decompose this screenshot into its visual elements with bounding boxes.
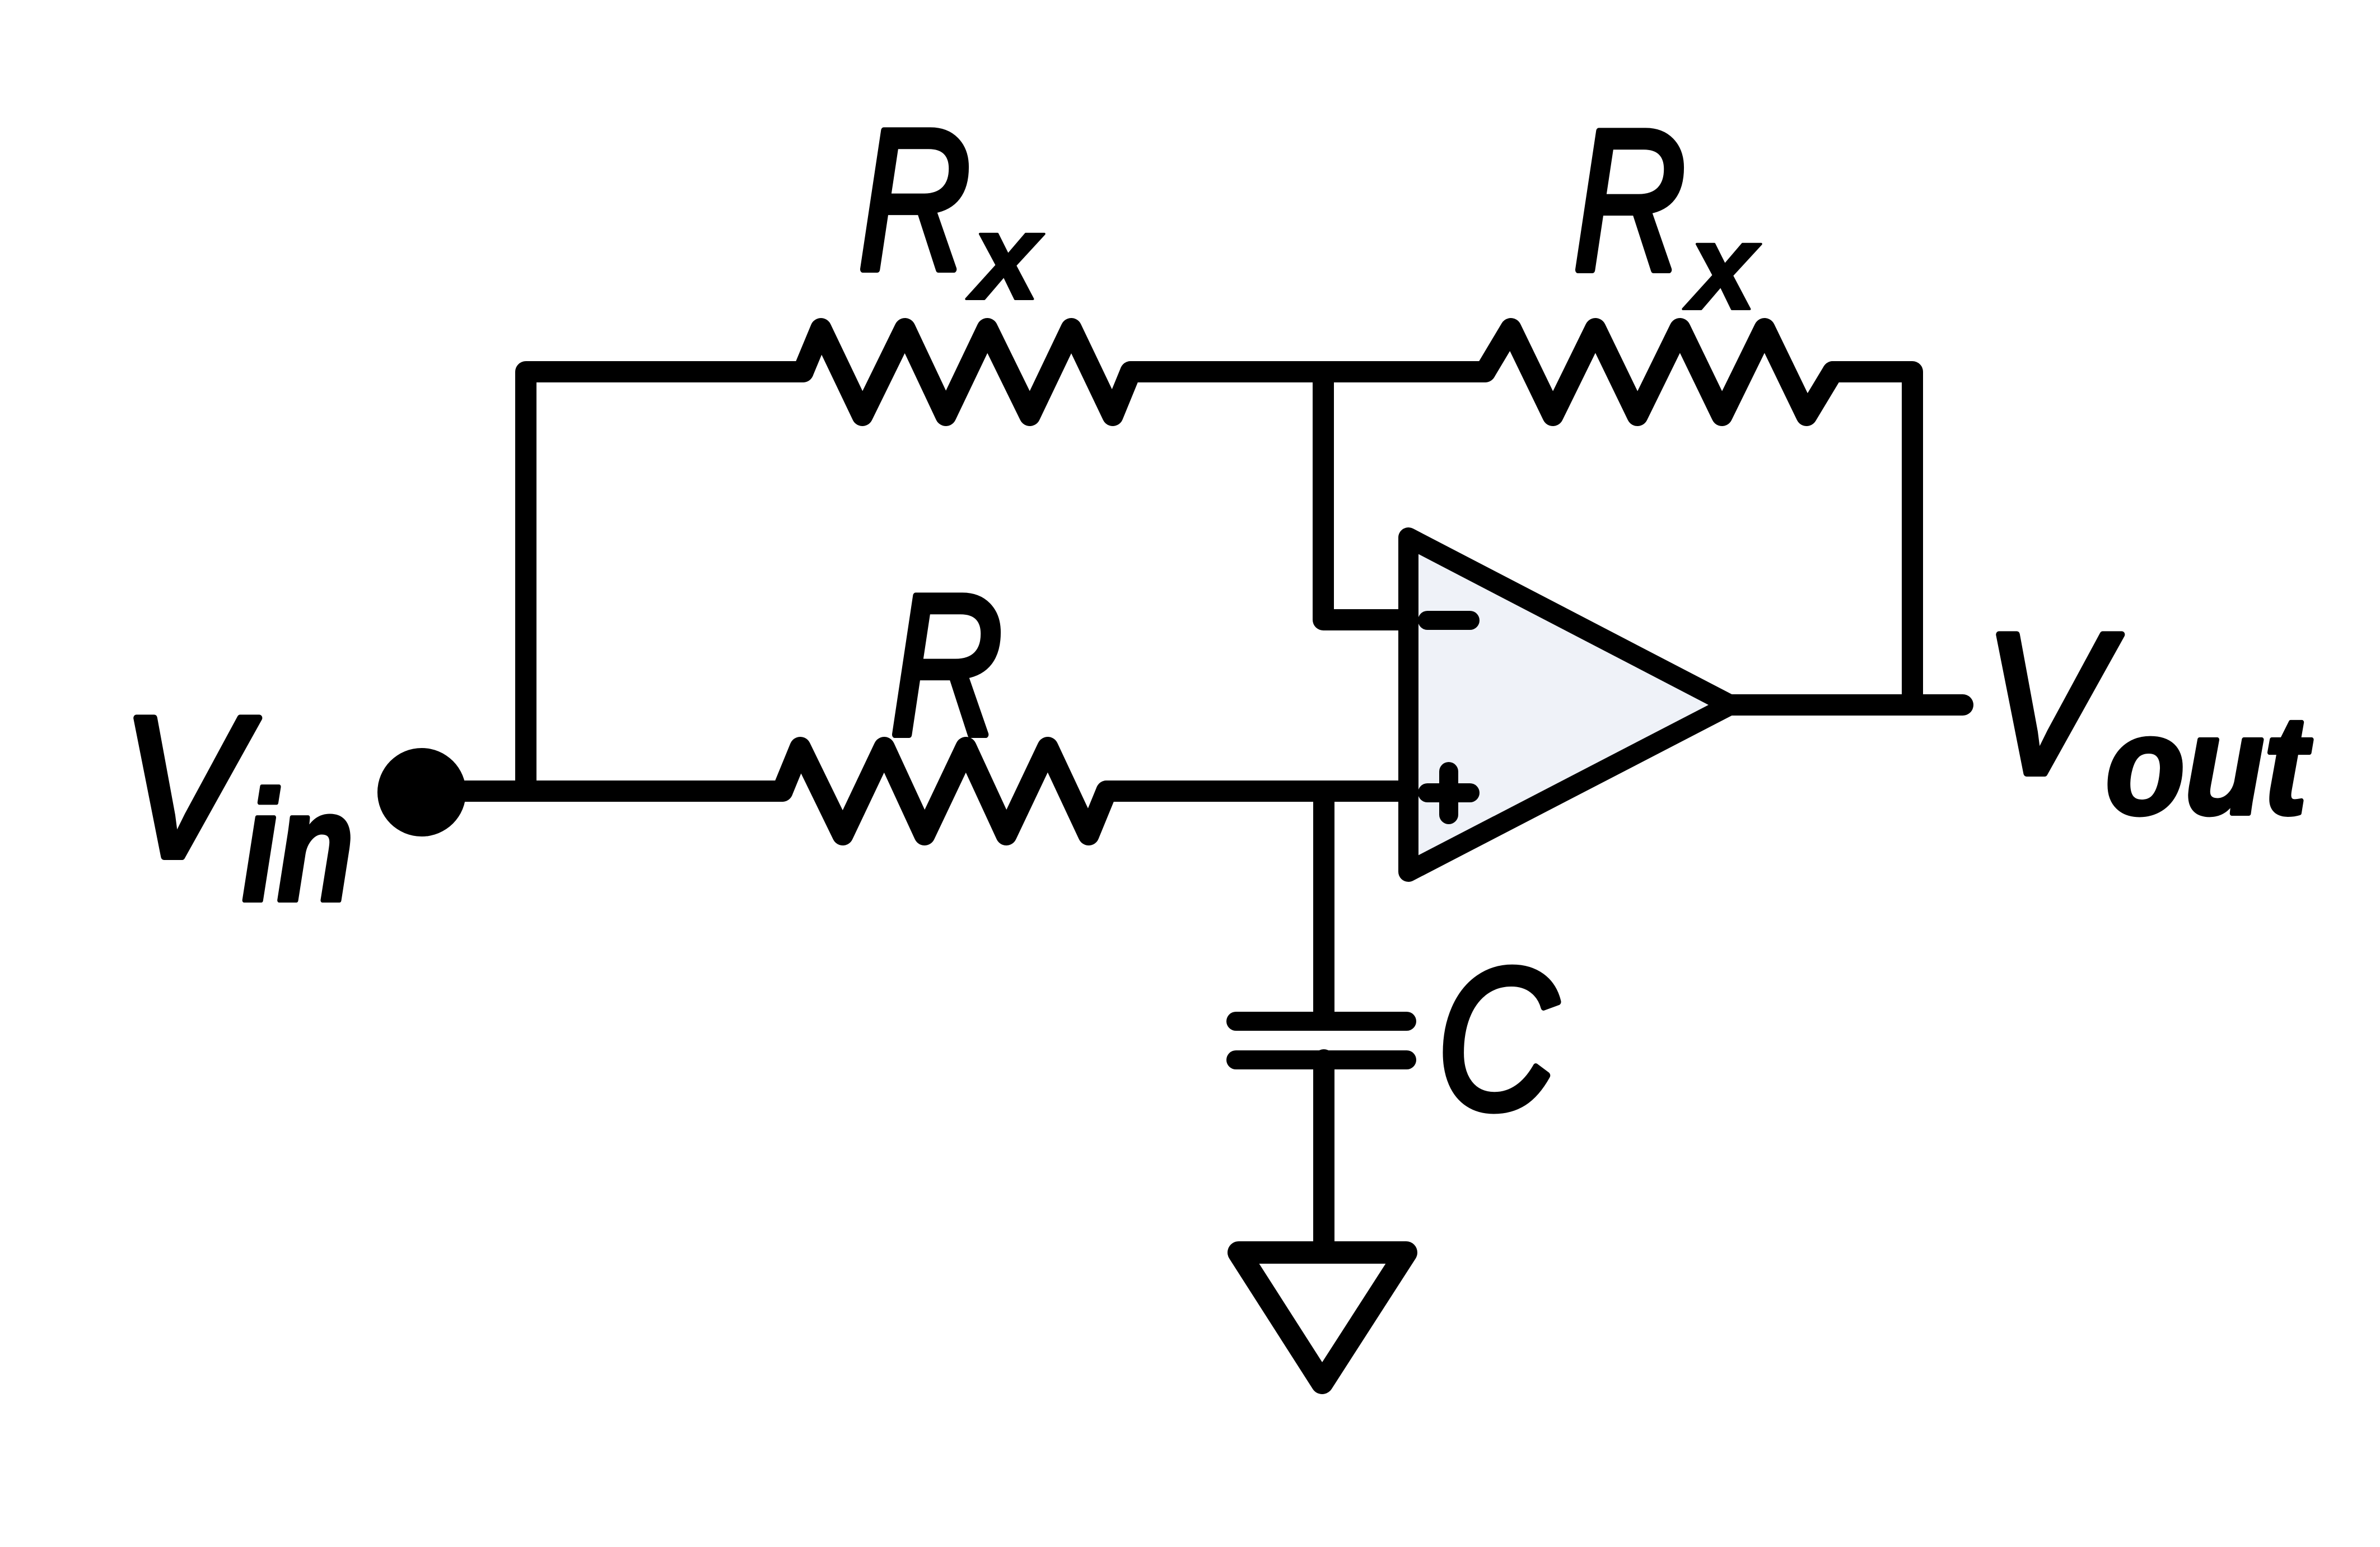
svg-text:out: out: [2106, 687, 2312, 843]
resistor Rx1 (top left, label Rx): [803, 329, 1131, 415]
wire : Rx2 right lead down to the output net: [1833, 372, 1912, 705]
svg-text:R: R: [1573, 88, 1686, 313]
op-amp U1 inverting input minus sign: [1427, 611, 1470, 630]
svg-text:C: C: [1436, 927, 1560, 1152]
op-amp U1: [1408, 538, 1730, 872]
svg-text:x: x: [1683, 198, 1761, 335]
resistor R: [782, 747, 1107, 835]
resistor Rx2 (top right, label Rx): [1485, 329, 1833, 415]
wire : top branch between Rx1 and Rx2, junction at node A: [1131, 361, 1485, 382]
svg-text:V: V: [1983, 591, 2123, 816]
svg-text:R: R: [858, 87, 971, 312]
svg-text:R: R: [890, 553, 1003, 778]
ground: [1239, 1252, 1406, 1383]
wire : Vin node up and right to resistor Rx1 left lead: [526, 372, 803, 791]
node Vin junction dot: [377, 748, 466, 836]
wire : node A down to op-amp inverting input: [1323, 372, 1409, 620]
wire : resistor R to op-amp noninverting input, junction at node B: [1107, 780, 1409, 802]
svg-text:in: in: [242, 759, 354, 934]
wire : op-amp output to Vout terminal: [1730, 694, 1963, 716]
svg-text:V: V: [120, 675, 260, 900]
capacitor C: [1236, 1021, 1407, 1060]
svg-text:x: x: [966, 188, 1044, 325]
wire : capacitor C bottom plate to ground: [1313, 1060, 1334, 1252]
op-amp U1 noninverting input plus sign: [1427, 772, 1470, 815]
wire : Vin node to resistor R left lead: [422, 780, 782, 802]
wire : node B down to capacitor C top plate: [1313, 791, 1334, 1013]
